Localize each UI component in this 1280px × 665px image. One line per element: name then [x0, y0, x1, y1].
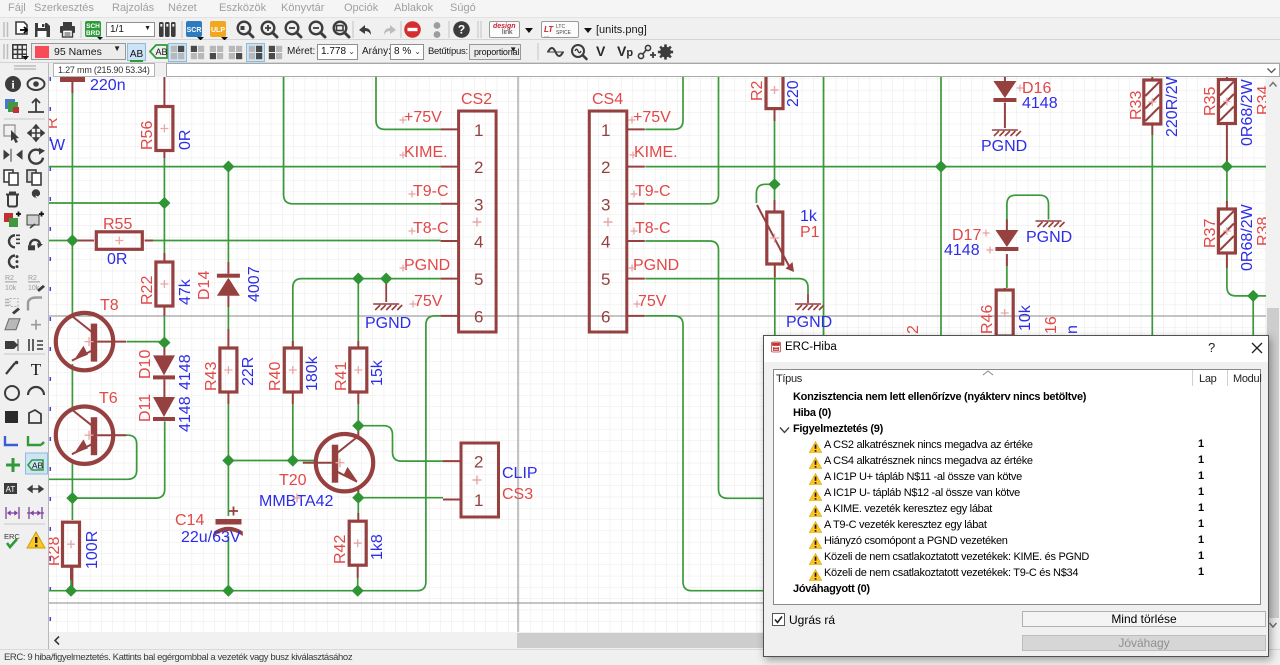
- svg-text:CS3: CS3: [502, 486, 533, 503]
- svg-text:15k: 15k: [369, 359, 386, 386]
- wire: [66, 240, 78, 242]
- diode D10: [153, 355, 175, 379]
- wire: [163, 343, 165, 356]
- wire: [163, 380, 165, 398]
- wire: [163, 261, 165, 263]
- pin 2: [441, 166, 459, 168]
- wire: [163, 158, 165, 262]
- resistor R43: [220, 348, 237, 392]
- svg-text:1: 1: [601, 121, 610, 140]
- wire: [292, 392, 294, 404]
- resistor R46: [996, 290, 1013, 336]
- origin cross: [629, 265, 636, 272]
- wire: [227, 296, 229, 307]
- svg-text:R2: R2: [28, 275, 37, 282]
- svg-text:T8: T8: [100, 297, 119, 314]
- pin 6: [441, 315, 459, 317]
- svg-text:0R: 0R: [177, 130, 194, 150]
- wire: [645, 166, 1266, 168]
- wire: [153, 240, 441, 242]
- svg-text:4148: 4148: [1022, 95, 1058, 112]
- wire: [70, 567, 72, 581]
- junction: [65, 585, 77, 597]
- junction: [66, 492, 78, 504]
- origin cross: [400, 265, 407, 272]
- pin 2: [627, 166, 645, 168]
- junction: [1247, 290, 1259, 302]
- wire: [645, 279, 808, 294]
- wire: [645, 241, 1266, 498]
- capacitor C14: [214, 507, 243, 537]
- wire: [358, 497, 443, 499]
- pin 2: [443, 460, 461, 462]
- wire: [357, 513, 359, 521]
- wire: [357, 489, 359, 498]
- svg-text:22u/63V: 22u/63V: [181, 529, 241, 546]
- wire: [774, 200, 776, 212]
- svg-text:R43: R43: [203, 362, 220, 391]
- transistor T20: [303, 434, 373, 491]
- wire: [227, 404, 229, 516]
- wire: [71, 567, 73, 591]
- junction: [222, 161, 234, 173]
- wire: [1226, 201, 1228, 209]
- svg-text:4148: 4148: [177, 396, 194, 432]
- junction: [1221, 161, 1233, 173]
- wire: [357, 341, 359, 348]
- sheet border dashed: [49, 77, 51, 632]
- svg-text:2: 2: [474, 158, 483, 177]
- transistor T6: [56, 407, 126, 464]
- svg-text:R35: R35: [1202, 87, 1219, 116]
- resistor R42: [349, 521, 366, 565]
- svg-text:ERC: ERC: [4, 532, 20, 541]
- wire: [49, 240, 66, 242]
- svg-text:R2: R2: [5, 275, 14, 282]
- pin 5: [441, 278, 459, 280]
- svg-text:+75V: +75V: [404, 109, 442, 126]
- svg-text:KIME.: KIME.: [404, 144, 448, 161]
- wire: [163, 306, 165, 316]
- origin cross: [629, 117, 636, 124]
- connector CS2: [459, 111, 497, 332]
- origin cross: [410, 301, 417, 308]
- wire: [645, 316, 1266, 591]
- wire: [1004, 103, 1006, 129]
- svg-text:AB: AB: [32, 461, 44, 471]
- ground PGND: [992, 130, 1021, 136]
- wire: [940, 77, 942, 632]
- svg-text:220: 220: [785, 80, 802, 107]
- svg-text:n: n: [1064, 325, 1081, 334]
- svg-text:180k: 180k: [304, 355, 321, 391]
- origin cross: [473, 218, 482, 227]
- svg-text:R22: R22: [139, 276, 156, 305]
- resistor R22: [156, 262, 173, 306]
- wire: [357, 578, 359, 591]
- svg-text:16: 16: [1043, 316, 1060, 334]
- svg-text:4: 4: [474, 233, 483, 252]
- wire: [774, 184, 776, 212]
- svg-text:1k: 1k: [800, 208, 818, 225]
- svg-text:R56: R56: [139, 121, 156, 150]
- origin cross: [987, 247, 994, 254]
- diode D16: [993, 81, 1016, 102]
- ground PGND: [795, 304, 824, 310]
- wire: [357, 566, 359, 579]
- junction: [380, 273, 392, 285]
- svg-text:75V: 75V: [638, 293, 667, 310]
- wire: [163, 151, 165, 159]
- wire: [1006, 266, 1008, 288]
- wire: [1151, 124, 1153, 135]
- svg-text:5: 5: [474, 270, 483, 289]
- wire: [1227, 268, 1266, 296]
- svg-text:PGND: PGND: [365, 315, 411, 332]
- origin cross: [1017, 85, 1024, 92]
- diode D17: [995, 230, 1018, 251]
- origin cross: [473, 476, 482, 485]
- wire: [357, 330, 359, 341]
- wire: [292, 404, 294, 461]
- wire: [645, 77, 718, 204]
- wire: [807, 294, 809, 303]
- wire: [163, 253, 165, 262]
- svg-text:220R/2W: 220R/2W: [1164, 77, 1181, 137]
- diode D11: [153, 397, 175, 421]
- wire: [292, 341, 294, 348]
- wire: [227, 536, 229, 591]
- wire: [145, 240, 153, 242]
- svg-text:P1: P1: [800, 224, 820, 241]
- wire: [774, 109, 776, 121]
- wire: [1006, 219, 1008, 230]
- svg-text:SCR: SCR: [187, 27, 202, 34]
- wire: [1226, 123, 1228, 167]
- wire: [227, 262, 229, 274]
- svg-text:3: 3: [474, 195, 483, 214]
- wire: [49, 202, 164, 204]
- svg-text:10k: 10k: [5, 285, 17, 292]
- wire: [293, 279, 441, 330]
- frame line: [517, 77, 519, 632]
- svg-text:T8-C: T8-C: [635, 220, 671, 237]
- svg-text:CLIP: CLIP: [502, 465, 538, 482]
- wire: [823, 77, 825, 632]
- frame line: [49, 315, 1266, 317]
- ground PGND: [1036, 221, 1065, 227]
- svg-text:75V: 75V: [414, 293, 443, 310]
- resistor R56: [156, 107, 173, 151]
- svg-text:R: R: [49, 117, 61, 129]
- resistor R2 (clipped): [766, 70, 783, 109]
- svg-text:C14: C14: [175, 512, 204, 529]
- svg-text:6: 6: [474, 307, 483, 326]
- origin cross: [409, 191, 416, 198]
- wire: [163, 77, 165, 107]
- svg-text:PGND: PGND: [786, 314, 832, 331]
- svg-text:R46: R46: [979, 305, 996, 334]
- junction: [352, 492, 364, 504]
- pin 1: [443, 499, 461, 501]
- svg-text:R41: R41: [333, 362, 350, 391]
- wire: [1252, 296, 1254, 632]
- svg-text:4148: 4148: [944, 242, 980, 259]
- frame line: [49, 602, 1266, 604]
- wire: [376, 77, 441, 129]
- wire: [774, 277, 776, 632]
- svg-text:100R: 100R: [84, 531, 101, 569]
- junction: [935, 161, 947, 173]
- wire: [1004, 77, 1006, 81]
- wire: [1226, 77, 1228, 80]
- svg-text:6: 6: [601, 307, 610, 326]
- svg-text:ULP: ULP: [211, 27, 225, 34]
- wire: [1151, 77, 1153, 80]
- svg-text:4007: 4007: [246, 266, 263, 302]
- junction: [352, 585, 364, 597]
- svg-text:T9-C: T9-C: [413, 183, 449, 200]
- wire: [1226, 167, 1228, 201]
- svg-text:SCH: SCH: [86, 23, 100, 30]
- origin cross: [400, 117, 407, 124]
- wire: [49, 435, 137, 479]
- resistor R28: [63, 522, 80, 566]
- wire: [49, 166, 441, 168]
- junction: [768, 178, 780, 190]
- wire: [49, 316, 441, 591]
- svg-text:R2: R2: [749, 80, 766, 101]
- resistor R41: [350, 348, 367, 392]
- wire: [385, 279, 387, 302]
- wire: [227, 307, 229, 329]
- svg-text:W: W: [50, 137, 66, 154]
- junction: [158, 337, 170, 349]
- svg-text:D11: D11: [137, 394, 154, 422]
- diode D14: [217, 274, 240, 296]
- origin cross: [630, 152, 637, 159]
- pin 4: [441, 240, 459, 242]
- wire: [357, 498, 359, 513]
- svg-text:R33: R33: [1128, 91, 1145, 120]
- svg-text:1k8: 1k8: [369, 534, 386, 560]
- pin 4: [627, 240, 645, 242]
- svg-text:R42: R42: [332, 535, 349, 564]
- svg-text:T8-C: T8-C: [413, 220, 449, 237]
- wire: [78, 240, 94, 242]
- wire: [358, 426, 443, 461]
- resistor R55: [96, 232, 142, 250]
- wire: [70, 580, 72, 591]
- svg-text:0R68/2W: 0R68/2W: [1239, 78, 1256, 146]
- wire: [72, 421, 164, 498]
- origin cross: [293, 494, 302, 503]
- junction: [222, 585, 234, 597]
- pin 1: [627, 128, 645, 130]
- resistor R37: [1218, 209, 1235, 253]
- svg-text:1: 1: [474, 121, 483, 140]
- svg-text:T6: T6: [99, 390, 118, 407]
- svg-text:R28: R28: [49, 537, 63, 566]
- wire: [292, 330, 294, 348]
- wire: [1004, 288, 1006, 291]
- wire: [357, 404, 359, 426]
- wire: [1006, 254, 1008, 266]
- svg-text:R37: R37: [1202, 219, 1219, 248]
- svg-text:?: ?: [458, 23, 465, 37]
- pin 5: [627, 278, 645, 280]
- svg-text:MMBTA42: MMBTA42: [259, 493, 333, 510]
- wire: [645, 77, 683, 129]
- wire: [774, 264, 776, 277]
- capacitor 220n: [60, 77, 85, 82]
- wire: [756, 184, 774, 203]
- junction: [158, 197, 170, 209]
- wire: [71, 460, 73, 520]
- wire: [71, 93, 73, 318]
- origin cross: [631, 191, 638, 198]
- wire: [127, 341, 165, 343]
- junction: [66, 234, 78, 246]
- svg-text:1: 1: [474, 491, 483, 510]
- origin cross: [634, 301, 641, 308]
- svg-text:AB: AB: [155, 47, 167, 57]
- resistor R40: [284, 348, 301, 392]
- svg-text:3: 3: [601, 195, 610, 214]
- wire: [163, 316, 165, 343]
- svg-text:D10: D10: [137, 350, 154, 379]
- resistor R35: [1218, 80, 1235, 124]
- pin 6: [627, 315, 645, 317]
- wire: [71, 364, 73, 410]
- svg-text:R40: R40: [267, 362, 284, 391]
- junction: [222, 454, 234, 466]
- svg-text:PGND: PGND: [404, 257, 450, 274]
- wire: [774, 121, 776, 184]
- svg-text:2: 2: [905, 325, 922, 334]
- connector CS3: [461, 443, 499, 517]
- origin cross: [631, 228, 638, 235]
- svg-text:2: 2: [601, 158, 610, 177]
- origin cross: [983, 230, 990, 237]
- pin 1: [441, 128, 459, 130]
- wire: [228, 460, 316, 462]
- svg-text:CS4: CS4: [592, 91, 623, 108]
- pin 3: [627, 203, 645, 205]
- svg-text:R34: R34: [1255, 86, 1266, 115]
- svg-text:R38: R38: [1255, 217, 1266, 246]
- svg-text:T: T: [31, 360, 42, 379]
- svg-text:0R: 0R: [107, 251, 127, 268]
- svg-text:10k: 10k: [1017, 304, 1034, 331]
- wire: [1226, 253, 1228, 268]
- wire: [357, 279, 359, 330]
- svg-text:2: 2: [474, 453, 483, 472]
- wire: [227, 392, 229, 404]
- svg-text:4: 4: [601, 233, 610, 252]
- connector CS4: [589, 111, 627, 332]
- wire: [357, 426, 359, 436]
- junction: [352, 273, 364, 285]
- svg-text:PGND: PGND: [1026, 229, 1072, 246]
- origin cross: [400, 152, 407, 159]
- svg-text:BRD: BRD: [86, 30, 100, 37]
- origin cross: [409, 228, 416, 235]
- wire: [1151, 135, 1153, 632]
- svg-text:KIME.: KIME.: [634, 144, 678, 161]
- resistor R33: [1144, 80, 1161, 124]
- junction: [352, 420, 364, 432]
- transistor T8: [56, 313, 126, 370]
- svg-text:47k: 47k: [177, 278, 194, 305]
- svg-text:PGND: PGND: [981, 138, 1027, 155]
- wire: [357, 392, 359, 404]
- svg-text:22R: 22R: [240, 357, 257, 386]
- wire: [1007, 195, 1049, 220]
- svg-text:0R68/2W: 0R68/2W: [1239, 203, 1256, 271]
- svg-text:220n: 220n: [90, 77, 126, 94]
- wire: [227, 167, 229, 262]
- svg-text:AT: AT: [6, 485, 16, 494]
- svg-text:T20: T20: [279, 472, 307, 489]
- svg-text:+75V: +75V: [633, 109, 671, 126]
- potentiometer P1: [757, 205, 794, 272]
- junction: [287, 454, 299, 466]
- svg-text:R55: R55: [103, 216, 132, 233]
- origin cross: [771, 86, 779, 94]
- svg-text:PGND: PGND: [633, 257, 679, 274]
- svg-text:4148: 4148: [177, 354, 194, 390]
- origin cross: [604, 218, 613, 227]
- svg-text:T9-C: T9-C: [635, 183, 671, 200]
- wire: [284, 77, 441, 204]
- ground PGND: [373, 304, 402, 310]
- svg-text:CS2: CS2: [461, 91, 492, 108]
- svg-text:D14: D14: [196, 271, 213, 300]
- svg-text:5: 5: [601, 270, 610, 289]
- pin 3: [441, 203, 459, 205]
- wire: [227, 329, 229, 348]
